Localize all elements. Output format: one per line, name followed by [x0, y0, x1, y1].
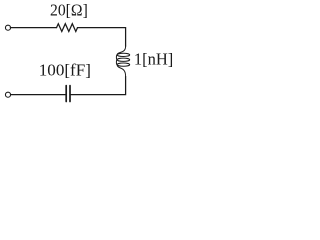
svg-text:100[fF]: 100[fF]: [39, 60, 91, 79]
wire: capacitor to bottom terminal: [10, 94, 65, 96]
wire: resistor to top-right corner, down to inductor: [78, 28, 126, 47]
capacitor C (100 fF) plates: [66, 86, 70, 102]
terminal/port node 1 (top-left open circle): [5, 25, 10, 30]
svg-text:1[nH]: 1[nH]: [134, 50, 173, 69]
resistor R (20 Ohm) zigzag: [57, 24, 78, 32]
wire: top terminal to resistor: [10, 27, 56, 29]
svg-text:20[Ω]: 20[Ω]: [50, 1, 88, 20]
inductor L (1 nH) coil: [116, 46, 129, 77]
terminal/port node 2 (bottom-left open circle): [5, 92, 10, 97]
wire: inductor down to bottom-right corner, left to capacitor: [71, 77, 126, 95]
